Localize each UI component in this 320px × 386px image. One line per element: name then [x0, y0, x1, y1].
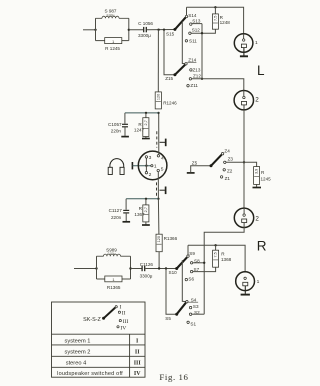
svg-text:Z4: Z4	[224, 149, 230, 154]
svg-text:0,03μ: 0,03μ	[108, 252, 116, 256]
switch Z15 pivot	[173, 73, 176, 76]
svg-text:0,03μ: 0,03μ	[107, 13, 115, 17]
loudspeaker connector R1	[236, 272, 260, 294]
svg-text:S10: S10	[169, 270, 178, 275]
svg-text:R1246: R1246	[163, 101, 177, 106]
svg-text:Z3: Z3	[228, 157, 234, 162]
resistor R1365	[97, 276, 131, 290]
node S12 wire crossing	[201, 32, 203, 34]
node Z3 crossing	[243, 161, 245, 163]
svg-text:Z11: Z11	[190, 83, 198, 88]
socket circle	[138, 151, 167, 180]
wire combo2 right side	[130, 256, 132, 279]
contact S9	[187, 255, 189, 257]
contact S11	[185, 40, 187, 42]
wire node to pin4 upper solid	[158, 113, 160, 155]
contact IV	[117, 326, 119, 328]
wire pin5 lower exit	[157, 172, 159, 199]
node combo left junction	[94, 29, 96, 31]
wire plug to pin 1	[132, 165, 151, 167]
svg-text:5: 5	[161, 167, 164, 173]
svg-text:R: R	[138, 122, 142, 127]
wire combo2 left side	[96, 256, 98, 279]
ground under R1245b	[253, 184, 262, 187]
svg-text:1367: 1367	[134, 212, 145, 217]
capacitor C1056	[138, 21, 153, 38]
svg-text:3300μ: 3300μ	[138, 33, 151, 38]
node above socket	[157, 112, 159, 114]
wire node to C1127/R1367	[126, 198, 158, 200]
svg-text:4: 4	[161, 156, 164, 162]
contact Z4	[221, 153, 223, 155]
wire top rail to speaker L1	[187, 7, 244, 34]
contact S2	[189, 313, 191, 315]
svg-text:1248: 1248	[220, 20, 231, 25]
pin 3	[145, 156, 147, 158]
svg-text:S4: S4	[191, 298, 197, 303]
node combo right junction	[128, 29, 130, 31]
svg-text:R: R	[139, 206, 143, 211]
svg-text:3,9: 3,9	[255, 169, 259, 174]
svg-text:Z12: Z12	[193, 74, 201, 79]
switch S15 arm	[175, 17, 186, 29]
svg-text:S7: S7	[194, 267, 200, 272]
svg-text:II: II	[122, 310, 126, 316]
wire C1126 to S10 pivot	[145, 268, 176, 270]
svg-text:R 1245: R 1245	[105, 46, 120, 51]
contact Z2	[223, 169, 225, 171]
pin 4	[157, 155, 159, 157]
svg-text:S1: S1	[190, 322, 196, 327]
contact Z1	[220, 176, 222, 178]
svg-text:Z5: Z5	[192, 161, 198, 166]
svg-text:SK-S-Z: SK-S-Z	[83, 317, 101, 323]
svg-text:1: 1	[255, 40, 258, 46]
node combo2 right junction	[129, 267, 131, 269]
svg-text:1247: 1247	[134, 128, 145, 133]
resistor R1366	[156, 234, 178, 252]
contact III	[119, 320, 121, 322]
svg-text:2: 2	[149, 172, 152, 178]
headphone symbol	[108, 159, 124, 175]
wire vertical S13 to Z12	[201, 24, 203, 79]
node R1247 top	[145, 112, 147, 114]
wire rail R to speaker R1	[188, 245, 245, 272]
loudspeaker connector L2	[234, 91, 259, 111]
coil S987	[96, 16, 129, 18]
pin 5	[157, 169, 159, 171]
capacitor C1127	[109, 199, 130, 221]
wire R2 bottom to S8/S2 vertical	[204, 223, 244, 315]
svg-text:S6: S6	[188, 277, 194, 282]
node R1246 branch	[157, 29, 159, 31]
node S8 wire junction	[203, 262, 205, 264]
wire R1248 top lead	[214, 7, 216, 14]
switch Z15 arm	[175, 65, 185, 75]
svg-text:3300μ: 3300μ	[140, 274, 153, 279]
svg-text:R: R	[220, 15, 224, 20]
svg-text:1: 1	[112, 40, 114, 44]
contact Z13	[190, 69, 192, 71]
plug icon lower	[160, 187, 166, 195]
selector switch SK-S-Z	[83, 308, 115, 323]
resistor R1246	[155, 92, 177, 109]
switch S5 pivot	[175, 313, 178, 316]
svg-text:220n: 220n	[111, 129, 122, 134]
wire node to C1057/R1247	[125, 112, 159, 114]
contact S14	[185, 15, 187, 17]
node R1248 top	[214, 6, 216, 8]
ground under R1247	[142, 137, 150, 139]
ground under R1367	[142, 222, 150, 225]
resistor R1247	[134, 113, 149, 137]
wire S5 feed	[166, 269, 177, 315]
node Z12 wire junction	[201, 78, 203, 80]
contact S4	[186, 301, 188, 303]
coil S989	[97, 254, 131, 256]
contact S13	[190, 23, 192, 25]
headphone plug bar	[131, 162, 133, 169]
svg-text:R1366: R1366	[164, 236, 178, 241]
svg-text:3: 3	[149, 155, 152, 161]
svg-text:7,5: 7,5	[214, 252, 218, 257]
svg-text:S5: S5	[165, 316, 171, 321]
svg-text:C1127: C1127	[109, 208, 123, 213]
svg-text:S9: S9	[189, 251, 195, 256]
ground under C1057	[121, 136, 129, 138]
svg-text:R1365: R1365	[107, 285, 121, 290]
dashed plug contact line lower	[156, 182, 158, 196]
dashed plug contact line upper	[156, 131, 158, 147]
plug icon upper	[160, 139, 166, 147]
table frame	[52, 302, 146, 377]
switch S10 arm	[177, 257, 187, 268]
wire down to R1246	[157, 30, 159, 92]
svg-text:1: 1	[112, 278, 114, 282]
svg-text:IV: IV	[120, 325, 126, 331]
node combo2 left junction	[95, 267, 97, 269]
svg-text:220n: 220n	[111, 215, 122, 220]
wire S9 riser to rail R	[187, 245, 189, 255]
switch Z5 arm	[211, 155, 222, 166]
wire combo left side	[95, 18, 97, 40]
ground bar under L1	[240, 55, 248, 57]
wire combo2 to C1126	[131, 268, 142, 270]
wire S4 drop from S10 arm	[182, 260, 185, 302]
svg-text:R: R	[261, 170, 265, 175]
svg-text:S11: S11	[189, 38, 197, 43]
svg-text:1: 1	[257, 279, 260, 285]
pin 2	[145, 172, 147, 174]
wire R1366 bottom to rail	[158, 252, 160, 269]
wire Z12 to speaker L2	[192, 79, 244, 91]
svg-text:C 1056: C 1056	[138, 21, 153, 26]
svg-text:1245: 1245	[261, 177, 272, 182]
svg-text:2: 2	[255, 216, 259, 223]
contact II	[118, 311, 120, 313]
svg-text:I: I	[136, 339, 139, 345]
node R1366 branch	[158, 267, 160, 269]
wire node down to R1366	[157, 199, 160, 234]
svg-text:R: R	[257, 239, 267, 254]
wire S14 riser to rail	[186, 7, 188, 15]
contact S1	[187, 321, 189, 323]
wire S8 to vertical	[193, 262, 204, 264]
svg-text:S12: S12	[192, 28, 201, 33]
wire R1368 bottom to S7	[193, 267, 216, 271]
wire C1056 to S15 pivot	[147, 29, 175, 31]
contact S3	[189, 306, 191, 308]
wire combo to C1056	[129, 29, 143, 31]
svg-text:2: 2	[255, 97, 259, 104]
pin 1	[151, 165, 153, 167]
node S5 branch	[165, 267, 167, 269]
switch S15 pivot	[173, 28, 176, 31]
node Z15 branch	[163, 29, 165, 31]
svg-text:120: 120	[157, 94, 161, 100]
contact Z14	[185, 63, 187, 65]
svg-text:L: L	[257, 63, 265, 78]
wire Z15 feed	[164, 30, 175, 75]
loudspeaker connector R2	[234, 208, 259, 227]
contact Z12	[189, 78, 191, 80]
ground bar under R1	[241, 294, 250, 296]
svg-text:systeem 1: systeem 1	[65, 339, 91, 345]
svg-text:II: II	[135, 350, 140, 356]
wire S13 to vertical	[192, 23, 202, 25]
switch Z5 pivot	[210, 164, 213, 167]
wire main bottom lead-in	[74, 268, 97, 270]
svg-text:C1126: C1126	[140, 262, 154, 267]
wire R1368 top lead	[215, 245, 217, 250]
svg-text:Z15: Z15	[165, 76, 173, 81]
contact Z11	[187, 85, 189, 87]
svg-text:Z13: Z13	[193, 67, 201, 72]
wire L2 bottom to R2 top	[243, 110, 245, 208]
resistor R1245b	[254, 167, 272, 185]
svg-text:Z1: Z1	[225, 176, 231, 181]
capacitor C1126	[140, 262, 154, 279]
svg-text:S3: S3	[193, 304, 199, 309]
node pin3-2 bar crossing	[145, 165, 147, 167]
svg-text:S15: S15	[166, 32, 175, 37]
wire combo right side	[128, 18, 130, 40]
svg-text:loudspeaker switched off: loudspeaker switched off	[57, 371, 123, 377]
node R1367 top	[145, 198, 147, 200]
svg-text:Z2: Z2	[227, 169, 233, 174]
loudspeaker connector L1	[234, 34, 258, 56]
svg-text:S14: S14	[188, 13, 197, 18]
contact S7	[190, 270, 192, 272]
svg-text:systeem 2: systeem 2	[65, 350, 91, 356]
ground under C1127	[123, 221, 131, 223]
contact S12	[189, 32, 191, 34]
wire main top lead-in	[83, 29, 96, 31]
svg-text:1368: 1368	[221, 257, 232, 262]
ground Z5	[187, 166, 211, 173]
wire Z14 drop from S15 arm	[182, 21, 185, 64]
wire pin3 to pin2	[145, 158, 147, 172]
svg-text:S13: S13	[192, 19, 201, 24]
node R1368 top	[214, 244, 216, 246]
node below socket	[157, 198, 159, 200]
svg-text:III: III	[134, 361, 142, 367]
capacitor C1057	[108, 113, 128, 136]
resistor R1368	[213, 250, 232, 267]
wire R1248 bottom to S12	[190, 29, 216, 33]
switch S5 arm	[177, 303, 186, 315]
svg-text:2,7: 2,7	[144, 120, 148, 125]
wire Z3 to R1245b	[226, 162, 257, 166]
svg-text:C1057: C1057	[108, 122, 122, 127]
contact S8	[190, 262, 192, 264]
svg-text:Fig. 16: Fig. 16	[159, 372, 188, 382]
contact Z3	[224, 161, 226, 163]
wire S2 to vertical	[192, 313, 204, 315]
svg-text:R: R	[221, 251, 225, 256]
resistor R1245	[96, 38, 129, 52]
resistor R1367	[134, 199, 149, 222]
resistor R1248	[212, 14, 230, 29]
svg-text:120: 120	[157, 236, 161, 242]
svg-text:stereo 4: stereo 4	[66, 361, 87, 367]
contact I	[115, 306, 117, 308]
svg-text:Z14: Z14	[188, 58, 196, 63]
svg-text:1: 1	[154, 164, 157, 170]
switch S10 pivot	[175, 267, 178, 270]
svg-text:III: III	[123, 319, 129, 325]
svg-text:7,5: 7,5	[214, 16, 218, 21]
contact S6	[185, 278, 187, 280]
svg-text:IV: IV	[134, 371, 141, 377]
